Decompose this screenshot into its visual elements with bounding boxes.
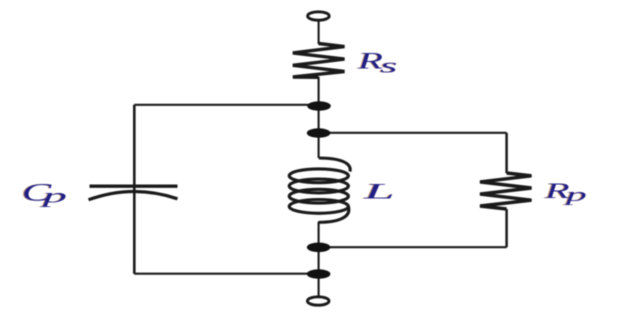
svg-text:L: L — [363, 180, 395, 204]
svg-text:p: p — [39, 185, 67, 207]
svg-text:p: p — [563, 185, 586, 206]
svg-text:s: s — [380, 54, 398, 77]
